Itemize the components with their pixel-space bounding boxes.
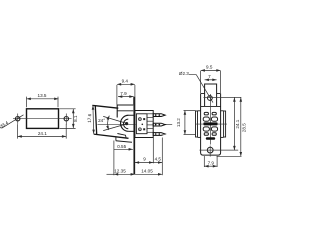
leader diameter 2.3 [189,75,213,103]
terminal slots large pair lower [203,127,217,131]
svg-text:7.9: 7.9 [120,91,127,96]
dimension 28.5 [240,97,242,156]
svg-text:12.35: 12.35 [114,168,126,173]
svg-text:9.5: 9.5 [206,65,213,70]
leader diameter 3.4 [2,115,24,129]
hole centerline [204,96,242,98]
terminal slots large pair upper [203,117,217,121]
svg-text:Ø3.4: Ø3.4 [0,120,9,129]
rivet top [139,118,142,121]
body vertical centerline [209,94,211,145]
terminal pin 1 [153,114,165,117]
mounting hole left [16,117,20,121]
flange outline [201,94,221,156]
lever blade front [205,84,217,106]
dome pivot [121,115,129,131]
svg-text:13.5: 13.5 [38,93,47,98]
lever paddle outline [92,105,118,134]
dimension 9.4 [117,84,135,110]
centerline side view [98,123,136,125]
body behind flange [196,111,226,138]
dimension 13.5 [27,97,59,108]
bottom mounting hole [207,147,213,153]
svg-text:9.4: 9.4 [122,79,129,84]
panel [133,97,135,175]
dimension 17.6 [92,105,95,133]
dimension 24.1 right [233,97,235,150]
contact bar dark [203,122,217,125]
svg-text:17.6: 17.6 [87,113,92,123]
shoulder line [201,105,221,107]
bushing front frame [117,105,133,118]
svg-text:24.1: 24.1 [235,119,240,128]
dimension 13.2 [184,111,196,135]
dimension 7.9 right [204,156,217,167]
flange slot dark [206,137,215,140]
terminal pin 3 [153,133,165,136]
mounting hole right [64,117,68,121]
svg-text:7: 7 [208,74,211,79]
body horizontal centerline [195,123,227,125]
contact square top [143,118,145,120]
dimension 8.1 [60,109,76,129]
dimension 7.9 [118,97,134,105]
svg-text:Ø2.3: Ø2.3 [179,71,189,76]
dimension 9.5 [201,70,221,93]
dimension 9 and 4.5 [135,138,163,176]
svg-text:8.1: 8.1 [73,115,78,122]
rivet bottom [139,128,142,131]
svg-text:0.55: 0.55 [117,144,126,149]
svg-text:14.05: 14.05 [141,168,153,173]
contact square bottom [143,128,145,130]
svg-text:24.1: 24.1 [38,131,47,136]
svg-text:9: 9 [143,157,146,162]
terminal slots small top pair [204,112,216,115]
flange bottom reference [217,155,242,157]
body outline top view [27,109,59,129]
svg-text:24°: 24° [98,118,105,123]
terminal strip dividers [147,114,153,133]
blade hole [208,96,213,101]
svg-text:4.5: 4.5 [155,157,162,162]
switch body side view [135,111,153,138]
centerline left view [13,118,72,120]
center dot [142,124,144,126]
dimension 24.1 [18,124,67,139]
svg-text:28.5: 28.5 [242,123,247,132]
svg-text:7.9: 7.9 [208,161,215,166]
dimension 7 [205,79,217,81]
dimension 12.35 and 14.05 [107,141,163,176]
terminal slots small bottom pair [204,133,216,136]
svg-text:13.2: 13.2 [176,118,181,127]
terminal pin 2 [153,123,165,126]
lever axis [103,116,127,123]
